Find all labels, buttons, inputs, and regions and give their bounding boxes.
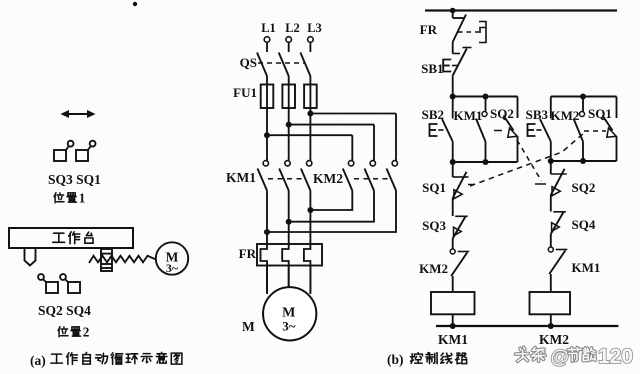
svg-text:SQ2: SQ2 [490,106,514,121]
svg-text:FU1: FU1 [233,85,257,100]
svg-text:L1: L1 [261,21,276,35]
svg-text:FR: FR [420,22,438,37]
svg-text:L2: L2 [285,21,300,35]
svg-text:SQ1: SQ1 [422,180,446,195]
svg-text:(a): (a) [30,353,46,368]
svg-text:SQ1: SQ1 [588,106,612,121]
svg-text:KM1: KM1 [226,170,256,185]
svg-text:SB1: SB1 [421,61,443,76]
svg-text:KM2: KM2 [419,261,448,276]
svg-text:QS: QS [240,55,257,70]
svg-text:SQ2: SQ2 [572,180,596,195]
svg-text:SQ3: SQ3 [422,218,446,233]
svg-text:SQ3 SQ1: SQ3 SQ1 [48,172,101,187]
svg-text:KM2: KM2 [313,171,343,186]
svg-text:M: M [242,319,255,334]
svg-text:FR: FR [239,246,257,261]
svg-text:SB2: SB2 [422,107,444,122]
svg-text:1: 1 [79,191,86,206]
svg-text:SQ4: SQ4 [572,217,596,232]
svg-text:SQ2 SQ4: SQ2 SQ4 [38,303,91,318]
svg-text:120: 120 [598,345,633,368]
svg-text:(b): (b) [387,352,404,367]
svg-text:KM1: KM1 [454,108,483,123]
svg-text:KM1: KM1 [572,260,601,275]
svg-text:@: @ [551,347,570,368]
svg-text:KM2: KM2 [539,332,569,347]
svg-text:L3: L3 [307,21,322,35]
svg-text:SB3: SB3 [526,107,549,122]
svg-text:3~: 3~ [166,261,179,275]
svg-text:2: 2 [83,325,90,340]
svg-text:3~: 3~ [282,319,296,334]
svg-text:KM1: KM1 [438,332,468,347]
